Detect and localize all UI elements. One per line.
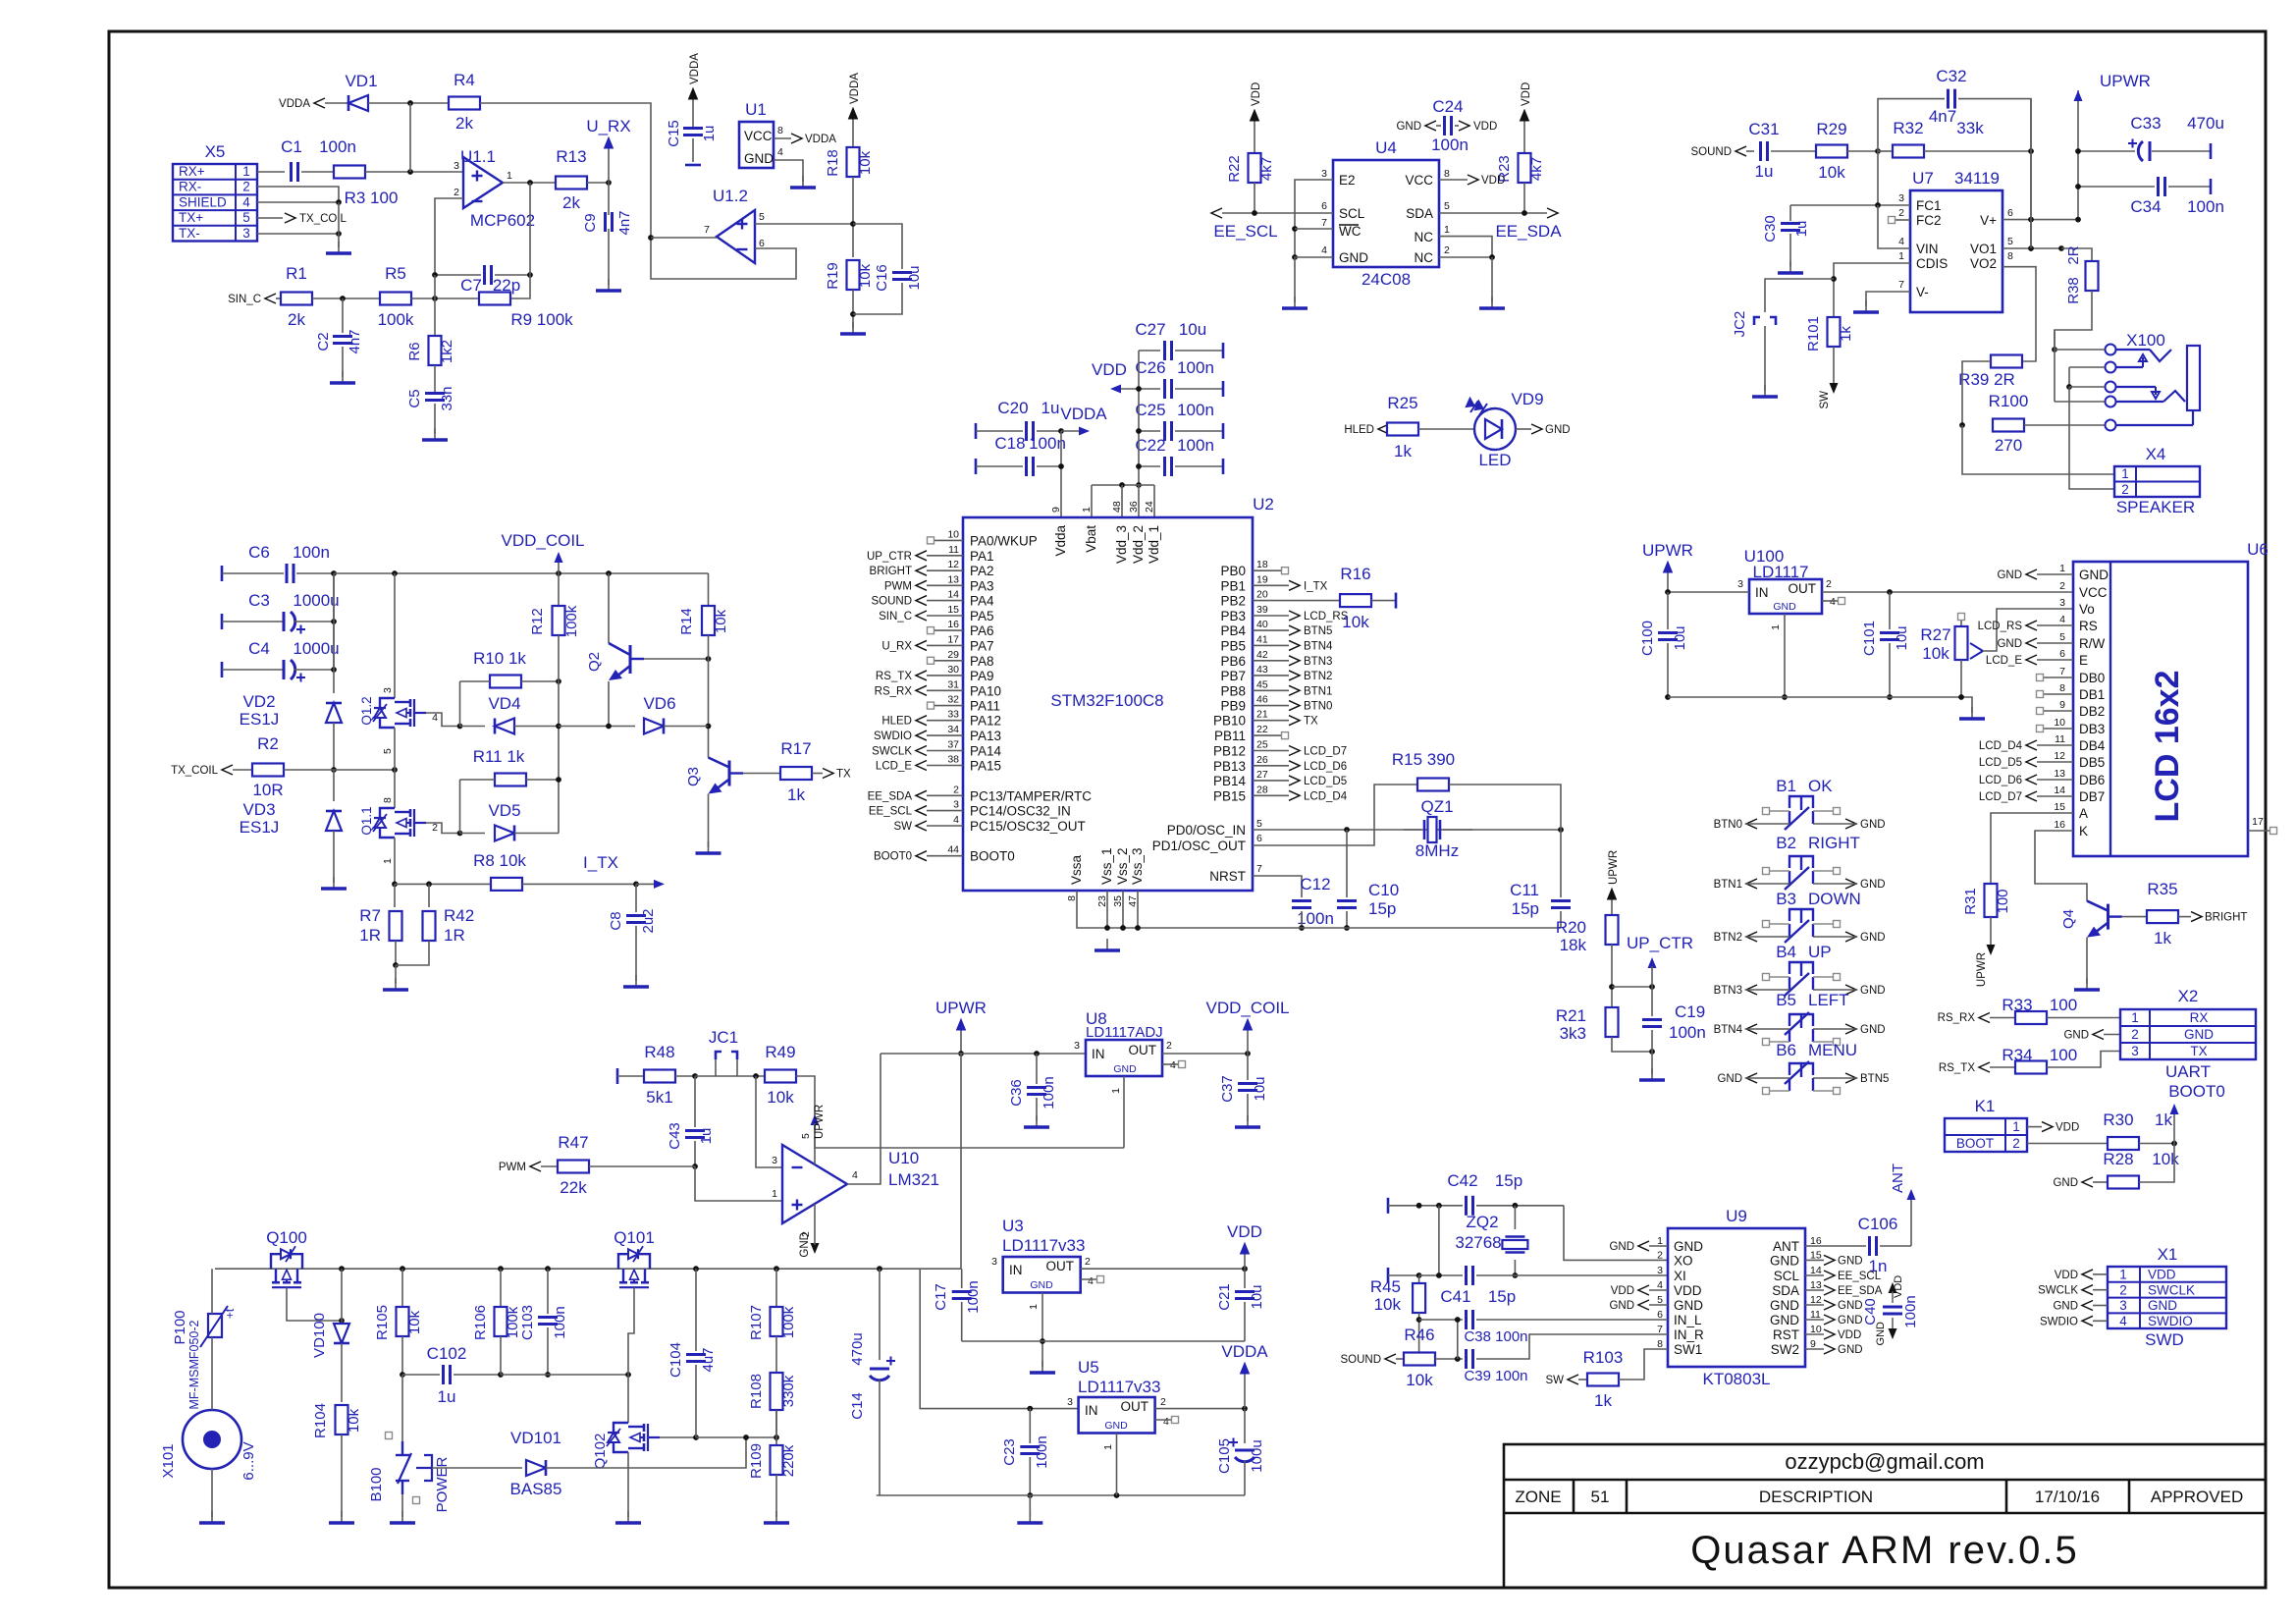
wire VD1-R4 node bbox=[368, 100, 449, 172]
svg-text:R5: R5 bbox=[385, 264, 406, 283]
svg-text:33: 33 bbox=[947, 709, 959, 721]
capacitor C6 bbox=[222, 543, 334, 583]
capacitor C106 bbox=[1805, 1215, 1911, 1275]
net arrow UPWR u100 bbox=[1642, 541, 1693, 592]
svg-text:4k7: 4k7 bbox=[1528, 157, 1545, 181]
capacitor C15 bbox=[666, 53, 718, 165]
svg-text:GND: GND bbox=[1396, 121, 1421, 133]
svg-text:SWCLK: SWCLK bbox=[2148, 1282, 2195, 1297]
svg-text:STM32F100C8: STM32F100C8 bbox=[1050, 691, 1163, 710]
resistor R106 bbox=[472, 1269, 521, 1375]
U2 pin 46 PB9 bbox=[1220, 694, 1332, 714]
U2 pin 15 PA5 bbox=[879, 604, 993, 623]
svg-text:BTN5: BTN5 bbox=[1304, 625, 1332, 637]
svg-text:LD1117v33: LD1117v33 bbox=[1002, 1236, 1085, 1255]
capacitor C17 bbox=[933, 1269, 982, 1341]
wire Q100 gate bbox=[287, 1287, 345, 1324]
ground B100 bbox=[390, 1511, 415, 1523]
svg-text:U_RX: U_RX bbox=[586, 117, 630, 135]
svg-text:OK: OK bbox=[1808, 777, 1833, 795]
svg-text:10u: 10u bbox=[1672, 625, 1688, 650]
capacitor C25 bbox=[1135, 401, 1223, 441]
net arrow VDD_COIL bbox=[501, 531, 584, 573]
svg-text:32: 32 bbox=[947, 694, 959, 706]
svg-text:GND: GND bbox=[1860, 1024, 1886, 1036]
pushbutton B2 RIGHT bbox=[1714, 834, 1886, 891]
svg-text:BOOT0: BOOT0 bbox=[970, 849, 1015, 864]
svg-text:VDD: VDD bbox=[1481, 175, 1505, 187]
capacitor C39 bbox=[1464, 1334, 1668, 1384]
svg-text:R35: R35 bbox=[2147, 880, 2177, 898]
capacitor C12 bbox=[1292, 875, 1334, 931]
svg-text:10k: 10k bbox=[2152, 1150, 2179, 1168]
U2 pin 29 PA8 bbox=[928, 649, 994, 669]
X1 port SWCLK bbox=[2038, 1285, 2108, 1297]
wire jack tip rows bbox=[2055, 330, 2105, 350]
svg-text:PB6: PB6 bbox=[1220, 654, 1246, 669]
wire Q1.2 drain-source bbox=[394, 728, 396, 770]
capacitor C5 bbox=[406, 365, 455, 411]
op-amp U10 LM321 bbox=[772, 1133, 939, 1237]
net arrow VDD left bbox=[1092, 360, 1139, 394]
svg-text:4: 4 bbox=[1898, 236, 1904, 247]
svg-text:BTN3: BTN3 bbox=[1304, 656, 1332, 668]
svg-text:PA6: PA6 bbox=[970, 623, 994, 638]
svg-text:100n: 100n bbox=[1041, 1076, 1057, 1109]
net arrow SW down bbox=[1819, 347, 1839, 409]
capacitor C103 bbox=[519, 1269, 568, 1378]
svg-text:DB3: DB3 bbox=[2079, 722, 2105, 736]
net arrow VDD_COIL U8 bbox=[1205, 999, 1289, 1054]
ground U5 bus bbox=[1017, 1495, 1042, 1523]
U6 port E bbox=[1986, 655, 2073, 667]
svg-text:8MHz: 8MHz bbox=[1415, 841, 1459, 860]
svg-text:4: 4 bbox=[2119, 1314, 2127, 1328]
svg-text:31: 31 bbox=[947, 678, 959, 690]
svg-text:TX: TX bbox=[2190, 1044, 2207, 1058]
U2 pin 21 PB10 bbox=[1213, 709, 1318, 729]
svg-text:100n: 100n bbox=[1177, 358, 1214, 377]
svg-text:BOOT0: BOOT0 bbox=[2168, 1082, 2225, 1101]
net arrow BOOT0 k1 bbox=[2168, 1082, 2225, 1144]
wire R3 to U1.1 +in bbox=[365, 169, 463, 175]
svg-text:PB4: PB4 bbox=[1220, 623, 1246, 638]
diode VD101 bbox=[432, 1429, 749, 1498]
svg-text:IN: IN bbox=[1755, 585, 1769, 600]
U6 stub DB3 bbox=[2037, 726, 2074, 732]
svg-text:C38 100n: C38 100n bbox=[1464, 1328, 1527, 1345]
svg-text:VDDA: VDDA bbox=[1060, 405, 1107, 423]
wire U7 V- bbox=[1866, 292, 1910, 306]
wire U10 output bbox=[847, 1054, 881, 1184]
svg-text:4: 4 bbox=[242, 194, 250, 209]
IC U7 34119 bbox=[1898, 169, 2013, 312]
svg-text:BTN3: BTN3 bbox=[1714, 985, 1742, 997]
wire ZQ2 riser bbox=[1436, 1206, 1442, 1278]
wire U5 out VDDA bbox=[1155, 1406, 1248, 1412]
svg-text:RST: RST bbox=[1773, 1327, 1799, 1342]
svg-text:C25: C25 bbox=[1135, 401, 1165, 419]
svg-text:SOUND: SOUND bbox=[1340, 1354, 1381, 1366]
svg-text:U1.2: U1.2 bbox=[713, 187, 748, 205]
svg-text:SWCLK: SWCLK bbox=[872, 746, 912, 758]
wire U1.1 output bbox=[503, 180, 556, 186]
jumper JC2 bbox=[1732, 279, 1834, 391]
svg-text:BTN5: BTN5 bbox=[1860, 1073, 1889, 1085]
pushbutton B4 UP bbox=[1714, 943, 1886, 997]
resistor R45 bbox=[1370, 1275, 1425, 1362]
svg-text:SW: SW bbox=[893, 821, 912, 833]
port SW u9 bbox=[1545, 1375, 1587, 1386]
svg-text:1k: 1k bbox=[1594, 1391, 1612, 1410]
wire output riser to R9 bbox=[509, 183, 530, 298]
svg-text:8: 8 bbox=[1444, 168, 1450, 180]
U9 port GND15 bbox=[1805, 1255, 1863, 1267]
wire U3 gnd bus bbox=[962, 1293, 1245, 1368]
wire U7 CDIS bbox=[1831, 263, 1910, 317]
IC U8 LD1117ADJ bbox=[1074, 1009, 1176, 1094]
svg-text:R29: R29 bbox=[1816, 120, 1846, 138]
wire VD2 column bbox=[333, 573, 335, 693]
svg-text:6...9V: 6...9V bbox=[240, 1441, 257, 1480]
capacitor C1 bbox=[281, 137, 356, 182]
resistor R42 bbox=[423, 884, 475, 945]
resistor R19 bbox=[825, 260, 874, 290]
wire U1.4 gnd bbox=[774, 160, 803, 182]
svg-text:PA7: PA7 bbox=[970, 638, 994, 653]
svg-text:U5: U5 bbox=[1078, 1358, 1099, 1377]
resistor R25 bbox=[1387, 394, 1418, 460]
wire OSC_OUT net bbox=[1253, 785, 1417, 845]
thermistor P100 bbox=[172, 1306, 237, 1409]
svg-text:40: 40 bbox=[1256, 619, 1268, 630]
capacitor C37 bbox=[1219, 1054, 1268, 1121]
U2 pin 27 PB14 bbox=[1213, 769, 1347, 788]
svg-text:4: 4 bbox=[1321, 244, 1327, 256]
capacitor C7 bbox=[432, 265, 533, 295]
svg-text:BTN1: BTN1 bbox=[1714, 879, 1742, 891]
transistor Q3 npn bbox=[685, 758, 743, 794]
svg-text:GND: GND bbox=[1609, 1241, 1634, 1253]
svg-text:Q3: Q3 bbox=[685, 767, 702, 786]
wire Q4 emitter bbox=[2086, 938, 2088, 984]
svg-text:SOUND: SOUND bbox=[1690, 146, 1732, 158]
svg-text:VD101: VD101 bbox=[510, 1429, 561, 1447]
svg-text:UART: UART bbox=[2165, 1062, 2211, 1081]
svg-text:GND: GND bbox=[1860, 985, 1886, 997]
svg-text:U9: U9 bbox=[1726, 1207, 1747, 1225]
svg-text:U4: U4 bbox=[1375, 138, 1397, 157]
U2 pin 10 PA0/WKUP bbox=[928, 528, 1038, 548]
svg-text:TX: TX bbox=[836, 769, 851, 781]
resistor R23 bbox=[1496, 82, 1545, 213]
resistor R39 bbox=[1958, 355, 2022, 428]
svg-text:Vdd_1: Vdd_1 bbox=[1147, 525, 1161, 564]
svg-text:U2: U2 bbox=[1253, 495, 1274, 514]
U5 pin4 stub bbox=[1155, 1417, 1179, 1424]
svg-text:12: 12 bbox=[947, 559, 959, 570]
svg-text:IN: IN bbox=[1092, 1047, 1105, 1061]
wire VDD column bbox=[1136, 351, 1142, 488]
svg-text:R47: R47 bbox=[558, 1133, 588, 1152]
svg-text:10k: 10k bbox=[857, 150, 874, 175]
svg-text:Vss_3: Vss_3 bbox=[1130, 847, 1145, 885]
wire R19 bottom bbox=[850, 290, 856, 328]
resistor R4 bbox=[449, 71, 480, 133]
capacitor C18 bbox=[976, 434, 1066, 476]
svg-text:GND: GND bbox=[2148, 1298, 2177, 1313]
svg-text:VDDA: VDDA bbox=[279, 98, 310, 110]
svg-text:VD2: VD2 bbox=[242, 692, 275, 711]
mosfet Q100 bbox=[266, 1228, 307, 1287]
svg-text:43: 43 bbox=[1256, 664, 1268, 676]
svg-text:R31: R31 bbox=[1962, 888, 1979, 915]
svg-text:KT0803L: KT0803L bbox=[1703, 1370, 1771, 1388]
svg-text:LED: LED bbox=[1478, 451, 1511, 469]
svg-text:2: 2 bbox=[1166, 1040, 1172, 1052]
pushbutton B6 MENU bbox=[1717, 1041, 1889, 1095]
svg-text:A: A bbox=[2079, 806, 2088, 821]
svg-text:B2: B2 bbox=[1776, 834, 1796, 852]
svg-text:14: 14 bbox=[2054, 785, 2065, 796]
svg-text:FC1: FC1 bbox=[1916, 198, 1942, 213]
svg-text:10k: 10k bbox=[1374, 1295, 1402, 1314]
svg-text:ANT: ANT bbox=[1773, 1239, 1799, 1254]
svg-text:C20: C20 bbox=[997, 399, 1028, 417]
X1 port VDD bbox=[2055, 1270, 2108, 1281]
svg-text:44: 44 bbox=[947, 844, 959, 856]
svg-text:C5: C5 bbox=[406, 389, 423, 407]
svg-text:VDD: VDD bbox=[1521, 82, 1532, 106]
svg-text:2: 2 bbox=[454, 187, 459, 198]
svg-text:OUT: OUT bbox=[1121, 1399, 1149, 1414]
svg-text:BAS85: BAS85 bbox=[510, 1480, 562, 1498]
wire XO riser bbox=[1564, 1206, 1668, 1261]
svg-text:VIN: VIN bbox=[1916, 242, 1939, 256]
svg-text:3: 3 bbox=[1657, 1265, 1663, 1276]
svg-text:1R: 1R bbox=[359, 926, 381, 945]
ground R7 bbox=[383, 978, 408, 990]
svg-text:HLED: HLED bbox=[1344, 424, 1374, 436]
capacitor C2 bbox=[315, 298, 363, 354]
svg-text:PWM: PWM bbox=[499, 1162, 526, 1173]
wire U4 NC pins bbox=[1439, 237, 1495, 302]
capacitor C26 bbox=[1135, 358, 1223, 399]
wire TX_COIL node to Q1 column bbox=[334, 767, 398, 773]
svg-text:Vo: Vo bbox=[2079, 602, 2095, 617]
svg-text:VDDA: VDDA bbox=[849, 73, 861, 104]
IC U9 KT0803L bbox=[1657, 1207, 1822, 1388]
wire C1 to R3 bbox=[301, 171, 334, 173]
crystal ZQ2 bbox=[1455, 1206, 1527, 1278]
U6 pin17 stub bbox=[2248, 816, 2277, 835]
svg-text:R4: R4 bbox=[454, 71, 475, 89]
wire C102 row to Q102 bbox=[501, 1372, 631, 1378]
U2 pin 31 PA10 bbox=[875, 678, 1001, 698]
U2 pin 41 PB5 bbox=[1220, 633, 1333, 653]
svg-text:1u: 1u bbox=[701, 126, 718, 142]
headphone jack X100 bbox=[2106, 331, 2201, 431]
U2 pin 5 PD0/OSC_IN bbox=[1167, 818, 1262, 838]
net arrow GND U10 bbox=[799, 1204, 820, 1258]
svg-text:PA5: PA5 bbox=[970, 609, 994, 623]
resistor R35 bbox=[2122, 880, 2179, 947]
svg-text:MF-MSMF050-2: MF-MSMF050-2 bbox=[187, 1320, 201, 1409]
ground Q102 bbox=[615, 1511, 641, 1523]
svg-text:Q102: Q102 bbox=[592, 1434, 609, 1470]
capacitor C34 bbox=[2075, 177, 2224, 216]
svg-text:SIN_C: SIN_C bbox=[879, 611, 912, 623]
svg-text:PB3: PB3 bbox=[1220, 609, 1246, 623]
svg-text:UP_CTR: UP_CTR bbox=[867, 551, 912, 563]
svg-text:DB6: DB6 bbox=[2079, 773, 2105, 787]
svg-text:1k: 1k bbox=[1838, 326, 1854, 342]
wire Q1.1 gate node bbox=[426, 823, 462, 836]
svg-text:ES1J: ES1J bbox=[240, 710, 280, 729]
wire C104 to R108 node bbox=[696, 1410, 779, 1445]
svg-text:R19: R19 bbox=[825, 262, 841, 290]
wire NRST to C12 bbox=[1253, 876, 1302, 897]
svg-text:DB5: DB5 bbox=[2079, 755, 2105, 770]
svg-text:5: 5 bbox=[2007, 236, 2013, 247]
port SIN_C bbox=[228, 294, 282, 305]
ground U2 Vss bbox=[1095, 939, 1120, 950]
svg-text:46: 46 bbox=[1256, 694, 1268, 706]
port SOUND top bbox=[1690, 146, 1754, 158]
capacitor C19 bbox=[1642, 987, 1706, 1074]
svg-text:C42: C42 bbox=[1447, 1171, 1477, 1190]
capacitor C100 bbox=[1639, 592, 1688, 700]
svg-text:VD4: VD4 bbox=[488, 694, 520, 713]
resistor R28 bbox=[2103, 1144, 2179, 1189]
svg-text:R42: R42 bbox=[444, 906, 474, 925]
svg-text:7: 7 bbox=[1321, 217, 1327, 229]
svg-text:SW1: SW1 bbox=[1674, 1342, 1702, 1357]
resistor R29 bbox=[1816, 120, 1847, 182]
mosfet Q102 bbox=[592, 1375, 660, 1517]
capacitor C43 bbox=[667, 1076, 715, 1169]
crystal QZ1 bbox=[1404, 797, 1472, 860]
net arrow ANT bbox=[1890, 1164, 1916, 1246]
svg-text:470u: 470u bbox=[849, 1332, 866, 1365]
svg-text:LCD_D4: LCD_D4 bbox=[1304, 790, 1348, 802]
svg-text:IN: IN bbox=[1009, 1263, 1023, 1277]
svg-text:U6: U6 bbox=[2247, 540, 2269, 559]
svg-text:100: 100 bbox=[2050, 996, 2077, 1014]
capacitor C31 bbox=[1748, 120, 1817, 181]
svg-text:15p: 15p bbox=[1488, 1287, 1516, 1306]
svg-text:20: 20 bbox=[1256, 589, 1268, 601]
svg-text:100n: 100n bbox=[293, 543, 330, 562]
U2 pin 19 PB1 bbox=[1220, 573, 1327, 593]
svg-text:LM321: LM321 bbox=[888, 1170, 939, 1189]
svg-text:1: 1 bbox=[1102, 1444, 1114, 1450]
U6 port RS bbox=[1978, 621, 2073, 632]
svg-text:GND: GND bbox=[799, 1232, 811, 1258]
svg-text:10u: 10u bbox=[1252, 1076, 1268, 1101]
svg-text:R1: R1 bbox=[286, 264, 307, 283]
svg-text:100n: 100n bbox=[2187, 197, 2224, 216]
svg-text:C19: C19 bbox=[1675, 1002, 1705, 1021]
svg-text:R15 390: R15 390 bbox=[1392, 750, 1455, 769]
svg-text:UPWR: UPWR bbox=[1642, 541, 1693, 560]
svg-text:17/10/16: 17/10/16 bbox=[2035, 1488, 2100, 1506]
svg-text:GND: GND bbox=[744, 151, 774, 166]
svg-text:VDD: VDD bbox=[1227, 1222, 1262, 1241]
svg-text:1: 1 bbox=[382, 858, 394, 864]
svg-text:Vbat: Vbat bbox=[1084, 525, 1098, 553]
connector X4 bbox=[2114, 445, 2200, 516]
resistor R21 bbox=[1556, 1006, 1619, 1043]
svg-text:LCD_RS: LCD_RS bbox=[1978, 621, 2023, 632]
U2 pin 45 PB8 bbox=[1220, 678, 1332, 698]
svg-text:UPWR: UPWR bbox=[935, 999, 987, 1017]
svg-text:CDIS: CDIS bbox=[1916, 256, 1948, 271]
svg-text:DB0: DB0 bbox=[2079, 671, 2105, 685]
resistor R48 bbox=[644, 1043, 698, 1107]
svg-text:1u: 1u bbox=[438, 1387, 456, 1406]
svg-text:B6: B6 bbox=[1776, 1041, 1796, 1059]
svg-text:30: 30 bbox=[947, 664, 959, 676]
svg-text:1: 1 bbox=[2012, 1119, 2020, 1134]
svg-text:GND: GND bbox=[2079, 568, 2109, 582]
svg-text:VD3: VD3 bbox=[242, 800, 275, 819]
ground VD3 bbox=[321, 877, 347, 889]
svg-text:38: 38 bbox=[947, 754, 959, 766]
svg-text:15p: 15p bbox=[1512, 899, 1539, 918]
wire X4 pin2 riser bbox=[2069, 387, 2114, 489]
wire Vss ground bus bbox=[1077, 891, 1561, 931]
svg-text:C17: C17 bbox=[933, 1283, 949, 1311]
resistor R3 bbox=[334, 166, 398, 208]
svg-text:1k: 1k bbox=[2155, 1110, 2172, 1129]
diode VD4 bbox=[460, 694, 560, 734]
svg-text:BTN0: BTN0 bbox=[1304, 701, 1332, 713]
svg-text:EE_SCL: EE_SCL bbox=[869, 806, 913, 818]
svg-text:C6: C6 bbox=[248, 543, 270, 562]
diode VD1 bbox=[345, 72, 377, 111]
svg-text:PB10: PB10 bbox=[1213, 714, 1246, 729]
svg-text:3: 3 bbox=[1074, 1040, 1080, 1052]
svg-text:Vssa: Vssa bbox=[1069, 854, 1084, 885]
svg-text:E: E bbox=[2079, 653, 2088, 668]
svg-text:GND: GND bbox=[1773, 601, 1796, 613]
svg-text:LCD_E: LCD_E bbox=[1986, 655, 2022, 667]
svg-text:VDDA: VDDA bbox=[1221, 1342, 1268, 1361]
svg-text:3: 3 bbox=[242, 226, 250, 241]
wire X101 to P100 to rail bbox=[211, 1269, 213, 1410]
U2 pin 7 NRST bbox=[1209, 863, 1262, 884]
svg-text:GND: GND bbox=[1770, 1298, 1799, 1313]
mosfet Q1.1 bbox=[359, 770, 438, 864]
svg-text:RIGHT: RIGHT bbox=[1808, 834, 1860, 852]
svg-text:VDD: VDD bbox=[2056, 1122, 2079, 1134]
wire VD4 row to VD6 bbox=[559, 726, 635, 728]
ground C8 bbox=[623, 975, 649, 987]
svg-text:12: 12 bbox=[2054, 750, 2065, 762]
svg-text:WC: WC bbox=[1339, 224, 1362, 239]
wire VO2 net bbox=[2002, 267, 2036, 361]
svg-text:C103: C103 bbox=[519, 1305, 536, 1340]
mosfet Q101 bbox=[614, 1228, 655, 1287]
svg-text:LCD_D7: LCD_D7 bbox=[1979, 791, 2022, 803]
resistor R2 bbox=[252, 734, 334, 799]
svg-text:R22: R22 bbox=[1226, 155, 1243, 183]
svg-text:C26: C26 bbox=[1135, 358, 1165, 377]
svg-text:C21: C21 bbox=[1216, 1283, 1233, 1311]
svg-text:IN_R: IN_R bbox=[1674, 1327, 1704, 1342]
svg-text:16: 16 bbox=[947, 619, 959, 630]
